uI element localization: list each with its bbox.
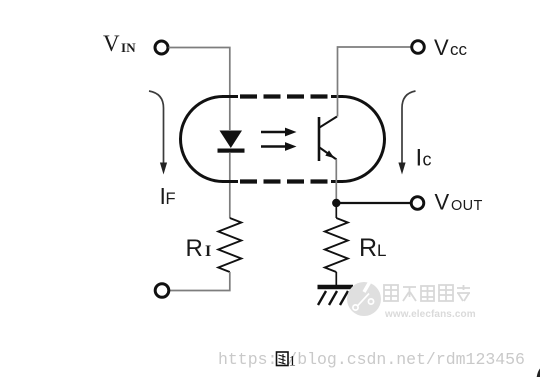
svg-text:www.elecfans.com: www.elecfans.com <box>384 309 476 320</box>
ground symbol <box>318 287 354 305</box>
resistor R1 zigzag <box>218 218 241 272</box>
LED D1 (triangle + cathode bar) <box>218 131 245 153</box>
phototransistor Q1 collector line <box>320 117 338 128</box>
terminal circle VIN <box>155 41 168 54</box>
wire LED cathode down to R1 <box>229 153 231 218</box>
figure caption 图1 <box>277 352 297 370</box>
optocoupler body right arc <box>342 97 385 182</box>
svg-text:I: I <box>205 243 211 260</box>
current arrow IC <box>398 91 415 175</box>
optocoupler body bottom solid stubs <box>222 180 238 183</box>
terminal circle bottom-left <box>155 284 169 298</box>
resistor RL zigzag <box>325 218 348 272</box>
svg-text:IN: IN <box>121 40 136 55</box>
svg-text:I: I <box>416 145 423 172</box>
label IF <box>160 183 176 209</box>
wire node to VOUT <box>336 202 411 204</box>
svg-text:V: V <box>435 190 450 215</box>
label R1 <box>186 235 212 262</box>
label Vcc <box>434 35 468 60</box>
wire emitter down to output node <box>335 159 337 200</box>
label Ic <box>416 145 432 172</box>
svg-text:R: R <box>359 234 377 262</box>
light emission arrow lower <box>261 142 297 151</box>
label VIN <box>103 31 136 56</box>
optocoupler body top dashed edge <box>240 94 331 98</box>
node junction dot <box>332 199 340 207</box>
svg-text:1: 1 <box>289 354 297 370</box>
svg-text:OUT: OUT <box>451 198 483 214</box>
svg-text:c: c <box>423 150 432 170</box>
terminal circle VCC <box>412 41 425 54</box>
optocoupler body bottom dashed edge <box>240 179 331 183</box>
watermark elecfans chinese text <box>384 285 470 301</box>
svg-text:cc: cc <box>450 40 468 59</box>
terminal circle VOUT <box>411 197 424 210</box>
wire node down to RL <box>335 203 337 218</box>
light emission arrow upper <box>261 128 297 137</box>
wire R1 to bottom terminal <box>170 272 230 291</box>
svg-text:https://blog.csdn.net/rdm12345: https://blog.csdn.net/rdm123456 <box>218 350 525 369</box>
wire VIN to LED anode (top-left) <box>169 48 230 131</box>
wire VCC to collector (top-right) <box>338 47 412 117</box>
wire RL to ground <box>335 272 337 286</box>
optocoupler body left arc <box>181 97 224 182</box>
svg-text:F: F <box>166 190 176 208</box>
phototransistor Q1 emitter line with arrow <box>320 148 337 160</box>
label RL <box>359 234 386 262</box>
phototransistor Q1 base bar <box>318 117 321 161</box>
svg-text:V: V <box>434 35 449 60</box>
corner mark bottom-right <box>537 369 540 377</box>
svg-text:V: V <box>103 31 120 56</box>
watermark elecfans logo <box>347 282 381 316</box>
optocoupler body top solid stubs <box>222 95 238 98</box>
svg-text:L: L <box>377 241 386 260</box>
current arrow IF <box>149 91 167 175</box>
svg-text:R: R <box>186 235 203 262</box>
label Vout <box>435 190 483 215</box>
